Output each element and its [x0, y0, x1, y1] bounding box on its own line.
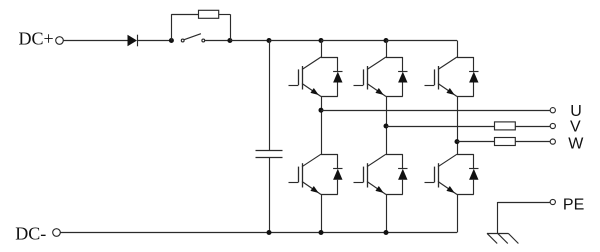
wire [515, 141, 550, 143]
node C [267, 38, 272, 43]
wire [137, 40, 171, 42]
wire [321, 41, 323, 58]
svg-text:U: U [570, 103, 582, 120]
wire [230, 14, 232, 40]
diode D2 [333, 57, 342, 97]
svg-text:V: V [570, 119, 581, 136]
terminal DC- [53, 229, 61, 237]
wire [386, 41, 388, 58]
wire [457, 195, 459, 233]
IGBT Q3 [354, 57, 403, 97]
terminal U [550, 108, 555, 113]
wire [219, 14, 230, 16]
diode D6 [398, 154, 407, 194]
terminal DC+ [56, 37, 64, 45]
node W [455, 139, 460, 144]
terminal PE [550, 199, 555, 204]
terminal V [550, 123, 555, 128]
wire [457, 141, 495, 143]
svg-text:W: W [568, 136, 584, 153]
svg-text:DC+: DC+ [19, 29, 54, 49]
node G [319, 230, 324, 235]
node E [384, 38, 389, 43]
node A [169, 38, 174, 43]
capacitor C1 [256, 150, 283, 152]
wire [457, 41, 459, 58]
switch S1 [181, 39, 184, 42]
wire [321, 110, 550, 112]
node D [319, 38, 324, 43]
svg-text:DC-: DC- [15, 224, 46, 244]
node B [227, 38, 232, 43]
IGBT Q4 [354, 154, 403, 194]
wire [269, 157, 271, 233]
IGBT Q2 [289, 154, 338, 194]
wire [386, 97, 388, 155]
wire [386, 195, 388, 233]
node F [267, 230, 272, 235]
wire [386, 126, 495, 128]
wire [205, 40, 230, 42]
wire [386, 40, 457, 42]
wire [321, 195, 323, 233]
diode D1 [128, 35, 138, 47]
wire [230, 40, 269, 42]
wire [269, 40, 321, 42]
wire [497, 202, 499, 233]
wire [457, 97, 459, 155]
wire [269, 41, 271, 151]
svg-text:PE: PE [563, 196, 584, 213]
wire [60, 232, 457, 234]
wire [321, 40, 386, 42]
diode D7 [469, 154, 478, 194]
terminal W [550, 139, 555, 144]
IGBT Q5 [425, 57, 474, 97]
wire [171, 14, 173, 40]
wire [321, 97, 323, 155]
IGBT Q6 [425, 154, 474, 194]
wire [171, 14, 198, 16]
resistor R2 [495, 122, 516, 130]
node V [384, 124, 389, 129]
diode D3 [398, 57, 407, 97]
ground [487, 233, 518, 243]
IGBT Q1 [289, 57, 338, 97]
wire [515, 126, 550, 128]
wire [63, 40, 127, 42]
node H [384, 230, 389, 235]
resistor R3 [495, 138, 516, 146]
resistor R1 [199, 10, 219, 18]
wire [498, 202, 551, 204]
node U [319, 108, 324, 113]
diode D5 [333, 154, 342, 194]
diode D4 [469, 57, 478, 97]
